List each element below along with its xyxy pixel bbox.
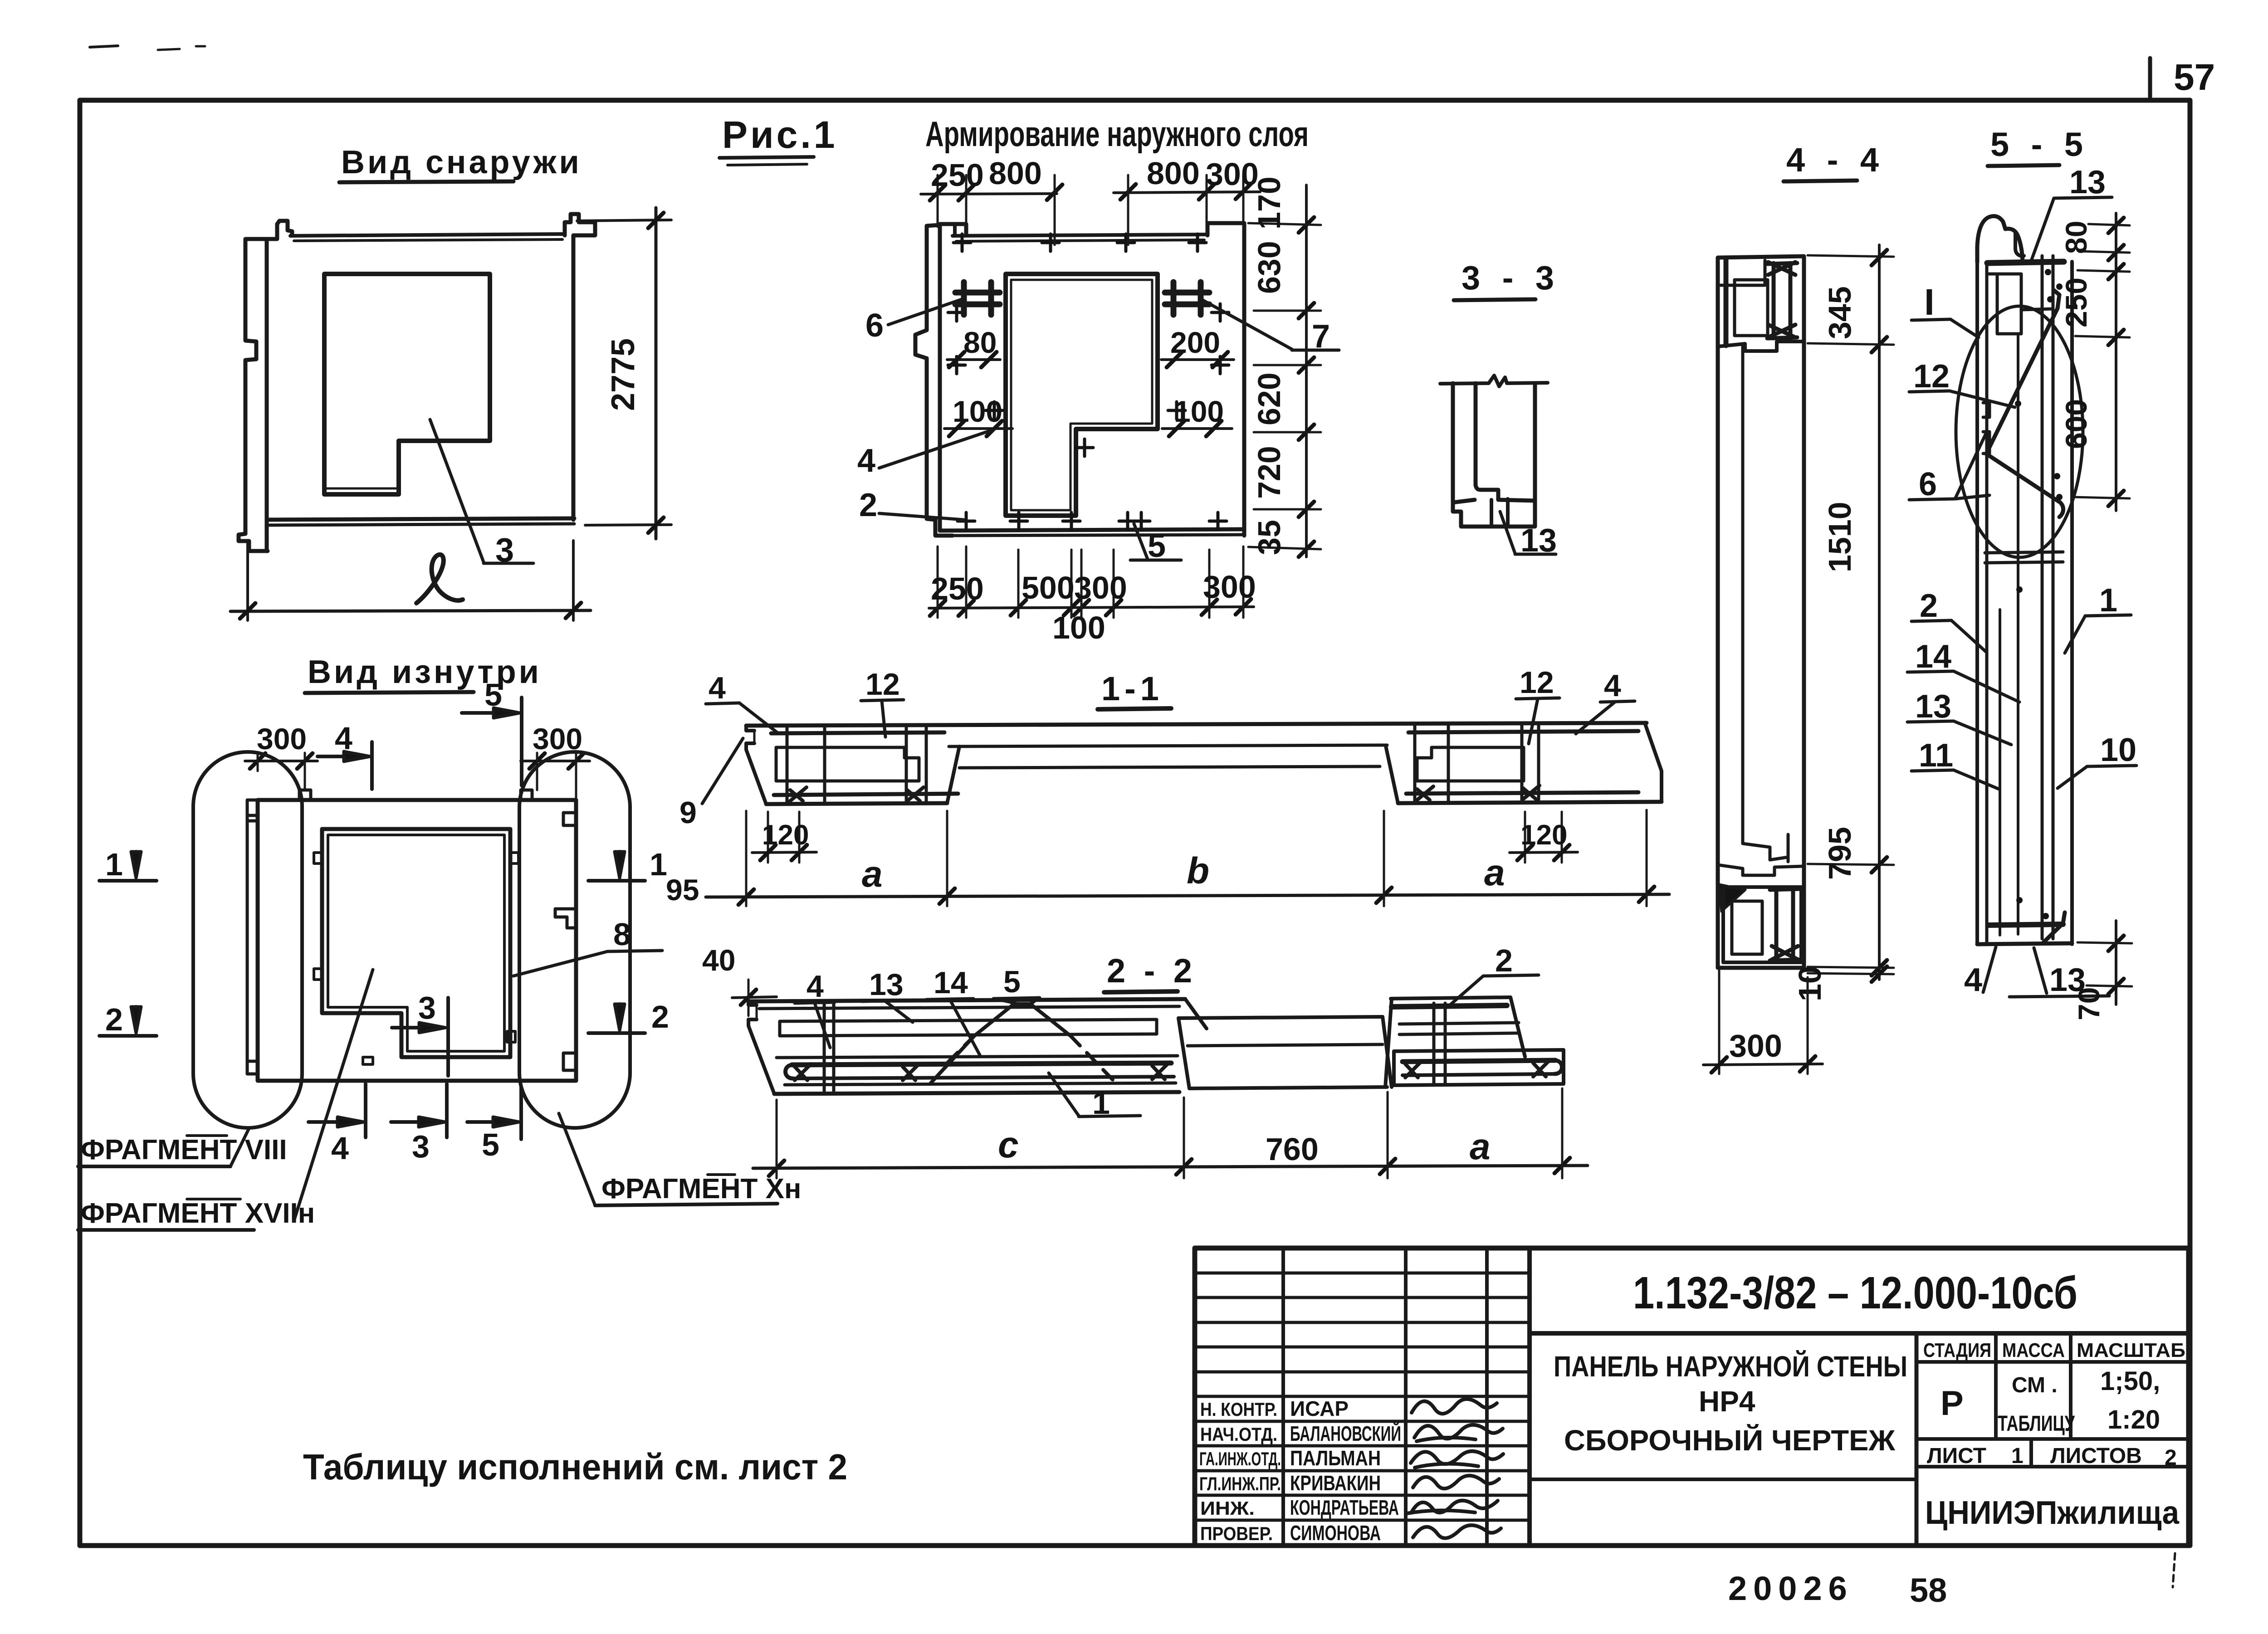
2-2 left end key notch [748,1001,774,1094]
svg-text:10: 10 [1792,966,1828,1001]
4-4 middle vertical lines [1741,346,1745,844]
section mark 4 bottom [364,1084,367,1137]
svg-text:ЦНИИЭПжилища: ЦНИИЭПжилища [1925,1495,2180,1531]
outside view: bottom double edge [267,518,574,520]
section 5-5 title underline [1988,165,2059,166]
svg-text:6: 6 [865,307,884,344]
svg-text:720: 720 [1251,446,1287,499]
label 13 with leader [1500,512,1515,553]
svg-text:Таблицу исполнений см. лист 2: Таблицу исполнений см. лист 2 [303,1447,847,1487]
outside view: top double edge line [290,234,565,236]
rebar item 7 dumbbell right [1165,282,1209,315]
fragment capsule left [193,752,302,1128]
1-1 dim 120 right [1524,812,1526,863]
right chain labels [1251,176,1287,555]
1-1 left block bottom [766,803,947,804]
inside panel left edge strip [247,800,258,1074]
leader line item 3 [430,419,484,562]
svg-text:ПАЛЬМАН: ПАЛЬМАН [1290,1446,1381,1470]
svg-text:3 - 3: 3 - 3 [1461,259,1560,297]
2-2 main dim line c 760 a [753,1166,1588,1168]
svg-text:3: 3 [418,990,436,1025]
1-1 right cage hooks [1417,786,1433,800]
section 3-3 title underline [1454,299,1535,300]
section 3-3 vertical walls [1451,383,1455,502]
svg-text:ФРАГМЕНТ Xн: ФРАГМЕНТ Xн [601,1173,801,1205]
svg-text:ПРОВЕР.: ПРОВЕР. [1200,1523,1273,1544]
svg-text:5 - 5: 5 - 5 [1990,126,2089,163]
svg-text:57: 57 [2174,57,2215,98]
name table column lines [1281,1248,1285,1546]
section 1-1 title underline [1098,708,1171,709]
top dimension extension lines [938,175,1243,245]
section 3-3 sill foot profile [1476,485,1535,501]
top dimension chain line [921,194,1057,194]
svg-text:120: 120 [1520,819,1567,851]
svg-text:b: b [1187,850,1209,892]
plus marks bottom row [958,512,975,530]
svg-text:СТАДИЯ: СТАДИЯ [1923,1339,1991,1361]
lifting loop tabs on top edge [299,790,311,800]
svg-text:200: 200 [1170,326,1220,359]
svg-text:КОНДРАТЬЕВА: КОНДРАТЬЕВА [1290,1496,1399,1519]
svg-text:1: 1 [105,847,123,882]
svg-text:620: 620 [1251,372,1287,425]
VIII overbar [187,1134,227,1137]
2-2 inner layer second line [759,1006,1179,1009]
section 2-2 title underline [1104,991,1178,992]
5-5 anchor diagonals in circle [1989,290,2059,448]
svg-text:13: 13 [1915,688,1951,725]
2-2 bottom edge left part [774,1092,1179,1094]
right chain extension lines [1248,223,1321,549]
svg-text:1:20: 1:20 [2107,1405,2160,1434]
svg-text:2: 2 [2165,1446,2177,1470]
1-1 top edge [746,723,1647,726]
svg-text:8: 8 [613,917,631,952]
outside view: top right step [565,214,595,520]
svg-text:5: 5 [1003,965,1021,999]
svg-text:I: I [1924,282,1935,323]
5-5 top thick bar [1987,262,2064,263]
svg-text:2 - 2: 2 - 2 [1107,952,1197,990]
inside view title underline [305,692,474,693]
svg-text:13: 13 [1520,522,1557,559]
svg-text:ГЛ.ИНЖ.ПР.: ГЛ.ИНЖ.ПР. [1199,1473,1281,1494]
5-5 rebar dots [2015,269,2063,919]
window border tabs [314,853,322,863]
label 1 with leader [1049,1073,1079,1116]
svg-text:a: a [1470,1126,1491,1167]
stray scan dashes top left [90,46,118,47]
svg-text:1: 1 [650,847,667,882]
1-1 right block insulation rect [1417,747,1524,781]
2-2 right bar hooks [1405,1061,1422,1078]
svg-text:ЛИСТ: ЛИСТ [1927,1444,1986,1468]
svg-text:13: 13 [869,967,904,1002]
svg-text:250: 250 [931,571,984,606]
1-1 right block bottom [1398,802,1662,803]
svg-text:300: 300 [257,722,307,756]
2-2 window gap band [1178,1018,1189,1088]
drawing title [1554,1350,1907,1457]
name table row lines [1195,1273,1530,1520]
arm panel: bottom double edge [940,529,1244,531]
4-4 top insulation block [1735,280,1768,336]
5-5 inner long verticals [1985,264,1989,942]
svg-text:Вид изнутри: Вид изнутри [308,654,542,690]
5-5 bottom hook diagonal [2043,912,2065,942]
svg-text:2: 2 [651,999,669,1034]
2-2 lower line [785,1083,1176,1085]
dimension 2775 line [655,208,658,539]
svg-text:ТАБЛИЦУ: ТАБЛИЦУ [1998,1412,2075,1436]
dimension letter l script [416,555,463,603]
inside window opening inner double line [328,835,504,1051]
dimension l line [230,610,591,611]
title block outer box [1195,1248,2189,1546]
svg-text:1510: 1510 [1822,502,1857,572]
svg-text:МАСШТАБ: МАСШТАБ [2077,1339,2185,1361]
svg-text:10: 10 [2100,732,2136,768]
svg-text:795: 795 [1822,827,1857,880]
svg-text:300: 300 [1203,569,1256,605]
window opening (L-shaped) [324,274,490,494]
svg-text:4: 4 [331,1131,349,1166]
svg-text:4: 4 [857,443,875,479]
1-1 left block right slant [947,746,959,803]
4-4 top block bottom edge with key notch [1718,341,1804,351]
5-5 top insulation rect [1997,274,2021,334]
svg-text:4: 4 [1964,962,1982,998]
svg-text:2: 2 [859,487,877,523]
svg-text:13: 13 [2069,164,2106,200]
section mark 3 bottom [445,1084,449,1137]
Ris.1 underline [719,157,814,158]
svg-text:300: 300 [1206,156,1259,192]
svg-text:5: 5 [482,1127,499,1162]
role names column [1199,1399,1281,1544]
svg-text:c: c [998,1124,1019,1166]
dimension l extension lines [246,541,249,620]
5-5 mid horizontal pair below circle [1985,552,2063,553]
svg-text:КРИВАКИН: КРИВАКИН [1290,1471,1381,1495]
arm panel: top right step [1207,223,1244,536]
1-1 middle band lines [949,745,1387,746]
svg-text:300: 300 [1074,570,1127,605]
4-4 top small rect [1721,260,1765,285]
svg-text:4 - 4: 4 - 4 [1786,141,1885,179]
svg-text:12: 12 [1913,358,1950,395]
top dimension labels [931,156,1259,193]
4-4 bottom dim 300 [1718,971,1721,1074]
2-2 right part inner lines [1399,1023,1519,1024]
svg-text:500: 500 [1022,570,1075,605]
svg-text:300: 300 [1729,1028,1782,1063]
4-4 bottom block top edge [1718,865,1804,875]
svg-text:6: 6 [1919,466,1937,502]
svg-text:20026: 20026 [1728,1570,1853,1607]
1-1 left block insulation rect [776,747,919,781]
1-1 right end [1645,723,1662,802]
2-2 bar hook marks [795,1064,811,1080]
5-5 top inner lines [1987,273,1997,276]
big area vertical dividers [1915,1333,1919,1546]
4-4 bottom insulation rect [1732,901,1762,954]
2-2 bottom rebar bar item 1 with hook [786,1065,793,1078]
svg-text:2775: 2775 [605,338,641,411]
dim 100 left [944,427,1012,430]
outside view title underline [339,181,513,182]
svg-text:a: a [862,854,883,895]
signatures squiggles [1407,1399,1503,1538]
label 7 with leader [1203,300,1292,349]
svg-text:100: 100 [953,395,1002,428]
5-5 column outer edges [1975,262,1979,944]
2-2 main dim extension lines [777,1088,1562,1178]
svg-text:4: 4 [1604,668,1621,703]
svg-text:11: 11 [1919,737,1953,774]
svg-text:12: 12 [1520,665,1554,700]
svg-text:760: 760 [1266,1132,1319,1167]
5-5 cap inner hook [2015,232,2024,256]
bottom dimension labels [931,569,1256,645]
svg-text:35: 35 [1251,520,1287,555]
person names column [1290,1397,1401,1545]
4-4 sill step [1743,844,1788,860]
2-2 inner layer right end slant [1185,999,1207,1029]
svg-text:1: 1 [2011,1444,2024,1468]
arm window opening (L-shaped) outer [1006,274,1158,516]
big area horizontal lines [1530,1331,2189,1336]
section 3-3 top line with break squiggle [1440,376,1548,386]
sheet numbers row [1927,1444,2177,1470]
svg-text:1-1: 1-1 [1101,670,1163,707]
svg-text:7: 7 [1312,318,1330,355]
2-2 lifting loop truss [931,1004,1070,1083]
dim 100 right [1162,427,1232,430]
5-5 right dim chain 80/250/600 [2115,213,2117,511]
svg-text:1: 1 [1092,1085,1110,1121]
4-4 dim 10 tick [1872,966,1887,982]
svg-text:9: 9 [679,795,697,830]
arm window opening inner line [1011,280,1152,510]
svg-text:1;50,: 1;50, [2100,1366,2160,1396]
svg-text:3: 3 [495,531,514,569]
svg-text:СБОРОЧНЫЙ ЧЕРТЕЖ: СБОРОЧНЫЙ ЧЕРТЕЖ [1564,1424,1896,1457]
5-5 bottom edge [1977,943,2072,944]
4-4 top rebar dumbbell [1767,262,1797,338]
svg-text:СИМОНОВА: СИМОНОВА [1290,1521,1381,1545]
svg-text:НР4: НР4 [1699,1385,1755,1418]
4-4 dim extension lines [1808,255,1894,974]
4-4 bottom rebar dumbbell [1770,889,1800,961]
dim 200 [1161,358,1234,361]
4-4 bottom cage outer rect [1723,887,1801,962]
svg-text:a: a [1484,852,1505,893]
arm panel: top double edge [953,226,957,235]
svg-text:95: 95 [666,873,699,907]
svg-text:800: 800 [989,156,1042,191]
svg-text:ПАНЕЛЬ НАРУЖНОЙ СТЕНЫ: ПАНЕЛЬ НАРУЖНОЙ СТЕНЫ [1554,1350,1907,1383]
1-1 main dimension line a b a [706,894,1669,897]
window opening bottom double line [326,488,397,490]
arm panel: left inner edge [940,224,966,241]
4-4 dim labels [1792,286,1857,1001]
svg-text:80: 80 [2059,221,2093,254]
svg-text:800: 800 [1147,156,1200,191]
2-2 right tie verticals [1432,1003,1436,1084]
2-2 right part top [1391,997,1510,999]
svg-text:345: 345 [1822,286,1857,339]
svg-text:ЛИСТОВ: ЛИСТОВ [2050,1444,2142,1468]
svg-text:Р: Р [1941,1384,1964,1423]
2-2 mid line item 14 [777,1056,1178,1058]
5-5 left edge joint brackets [1983,403,1989,417]
2-2 top edge inner layer [748,999,1185,1001]
5-5 bottom thick bar [1988,924,2063,925]
4-4 drip channel dark triangle [1719,884,1745,912]
svg-text:14: 14 [1915,639,1951,675]
svg-text:600: 600 [2059,399,2093,449]
section 4-4 title underline [1784,180,1857,181]
svg-text:70: 70 [2072,987,2106,1020]
svg-text:МАССА: МАССА [2002,1339,2065,1361]
stage/mass/scale headers [1923,1339,2185,1361]
1-1 right rebar cage [1415,725,1539,801]
svg-text:Н. КОНТР.: Н. КОНТР. [1200,1399,1277,1420]
svg-text:1: 1 [2099,582,2117,619]
svg-text:120: 120 [762,819,809,851]
svg-text:СМ .: СМ . [2012,1373,2058,1397]
svg-text:12: 12 [865,667,900,702]
svg-text:БАЛАНОВСКИЙ: БАЛАНОВСКИЙ [1290,1422,1401,1445]
svg-text:ИНЖ.: ИНЖ. [1200,1497,1255,1519]
svg-text:4: 4 [709,671,726,705]
dimension 2775 extension lines [577,220,671,221]
svg-text:ГА.ИНЖ.ОТД.: ГА.ИНЖ.ОТД. [1199,1448,1281,1469]
svg-text:100: 100 [1174,395,1224,428]
rebar item 6 dumbbell left [955,282,1000,315]
fragment capsule right [519,752,630,1128]
5-5 top cap profile [1977,216,2023,262]
section mark 5 bottom [519,1087,523,1139]
svg-text:58: 58 [1910,1571,1947,1609]
svg-text:Рис.1: Рис.1 [722,113,837,156]
1-1 left cage hooks [790,787,807,801]
plus marks top row [953,234,971,251]
arm panel: left edge profile [915,225,953,536]
2-2 mesh rect item 13 [780,1019,1157,1036]
svg-text:Армирование наружного слоя: Армирование наружного слоя [925,114,1309,154]
1-1 dim 120 left [767,812,769,863]
2-2 tie verticals pair [823,1003,826,1091]
outside view: panel body outline [267,221,292,550]
svg-text:80: 80 [963,326,997,359]
1-1 right block left slant [1386,746,1398,803]
svg-text:170: 170 [1251,176,1287,229]
bottom dimension chain line [929,607,1254,608]
1-1 main dim extension lines [746,810,1647,906]
svg-text:ФРАГМЕНТ XVIIн: ФРАГМЕНТ XVIIн [81,1198,315,1229]
5-5 bottom dim 70 [2115,921,2117,1005]
svg-text:630: 630 [1251,241,1287,294]
outside view: left edge profile strip [239,239,268,551]
plus marks sides [948,304,965,321]
inside panel outline [258,800,576,1081]
svg-text:Вид снаружи: Вид снаружи [341,144,582,180]
svg-text:100: 100 [1052,610,1105,645]
bottom dimension extension lines [938,546,1243,618]
svg-text:5: 5 [1148,528,1166,564]
2-2 right part thick top bar [1392,1005,1507,1007]
section 3-3 inner verticals of foot [1490,500,1493,527]
svg-text:250: 250 [2059,278,2093,327]
4-4 outer outline [1718,256,1804,968]
svg-text:2: 2 [1495,943,1513,978]
1-1 left rebar cage [787,726,926,802]
dim 80 [947,358,1000,361]
label 5 flag [1134,524,1148,559]
svg-text:14: 14 [934,966,968,1000]
svg-text:250: 250 [931,157,984,193]
svg-text:2: 2 [105,1002,123,1037]
svg-text:ФРАГМЕНТ VIII: ФРАГМЕНТ VIII [81,1134,287,1166]
svg-text:3: 3 [412,1129,430,1164]
2-2 right cage bars with hook [1554,1060,1562,1074]
svg-text:40: 40 [702,943,735,977]
4-4 top block inner left strip [1724,259,1729,346]
inside window opening outer (L-shaped) [322,829,510,1057]
2-2 right cage rect [1394,1050,1564,1085]
svg-text:2: 2 [1920,588,1938,624]
svg-text:ИСАР: ИСАР [1290,1397,1349,1420]
right edge notches [563,813,576,825]
right vertical dimension chain [1305,185,1308,557]
svg-text:4: 4 [807,969,824,1004]
svg-text:НАЧ.ОТД.: НАЧ.ОТД. [1200,1424,1277,1445]
registration tick bottom right [2173,1553,2175,1587]
page number tick top right [2148,58,2152,100]
svg-text:1.132-3/82 – 12.000-10сб: 1.132-3/82 – 12.000-10сб [1633,1268,2077,1318]
4-4 right dimension chain [1878,245,1881,980]
1-1 left end with key notch [746,726,766,804]
5-5 detail circle I [1956,306,2083,557]
